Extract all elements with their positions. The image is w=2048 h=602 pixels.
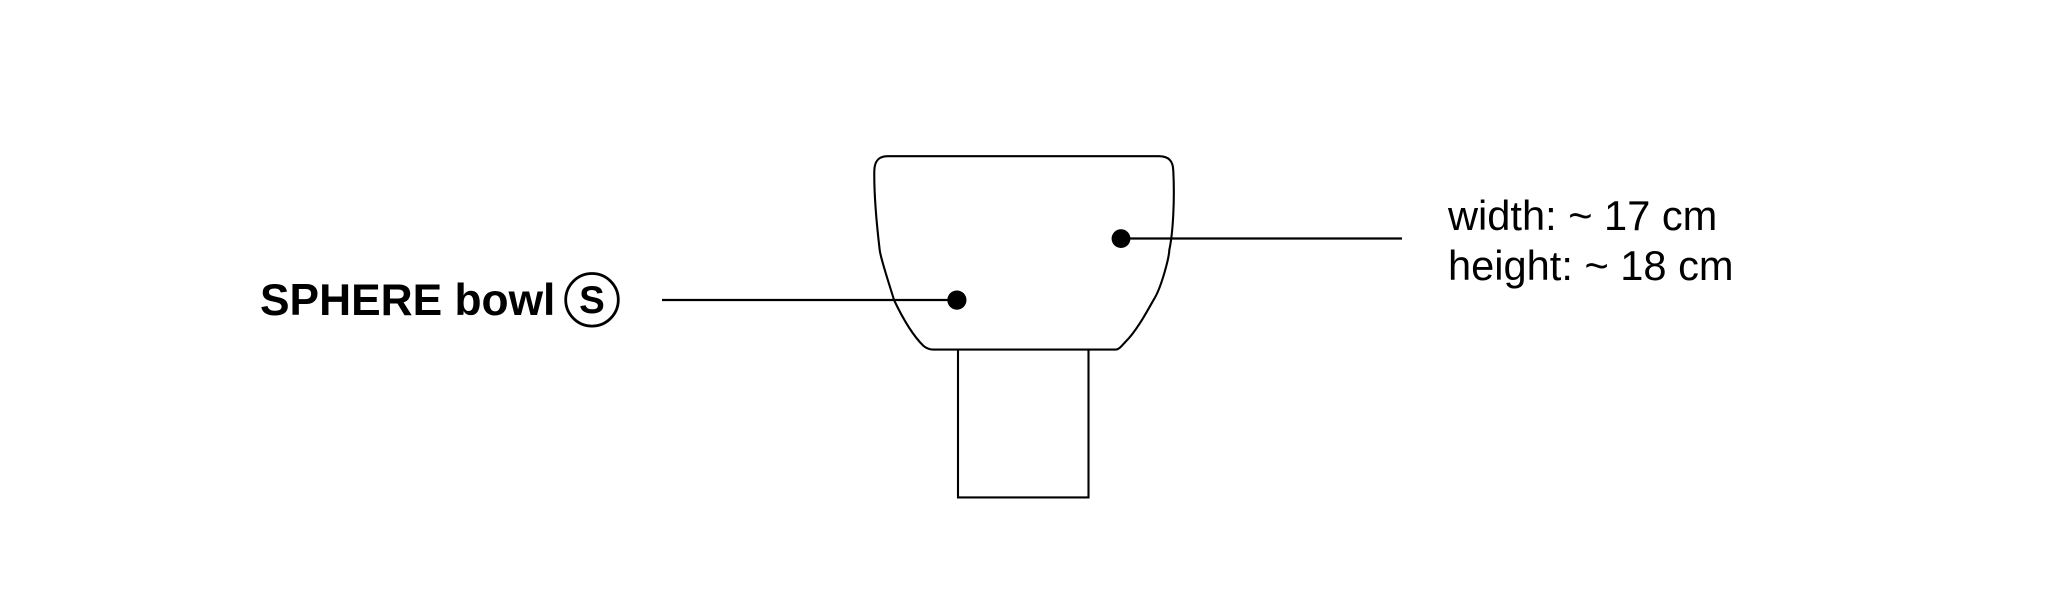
bowl outline [874, 156, 1174, 349]
right leader line [1121, 237, 1402, 239]
left leader line [662, 299, 957, 301]
stand (base) of bowl [958, 350, 1089, 498]
svg-text:S: S [579, 279, 605, 322]
svg-text:height: ~ 18 cm: height: ~ 18 cm [1448, 242, 1734, 289]
svg-text:width: ~ 17 cm: width: ~ 17 cm [1447, 192, 1717, 239]
size mark circle (S) [566, 274, 619, 327]
svg-text:SPHERE bowl: SPHERE bowl [260, 276, 555, 325]
right leader dot [1112, 229, 1131, 248]
left leader dot [947, 291, 966, 310]
